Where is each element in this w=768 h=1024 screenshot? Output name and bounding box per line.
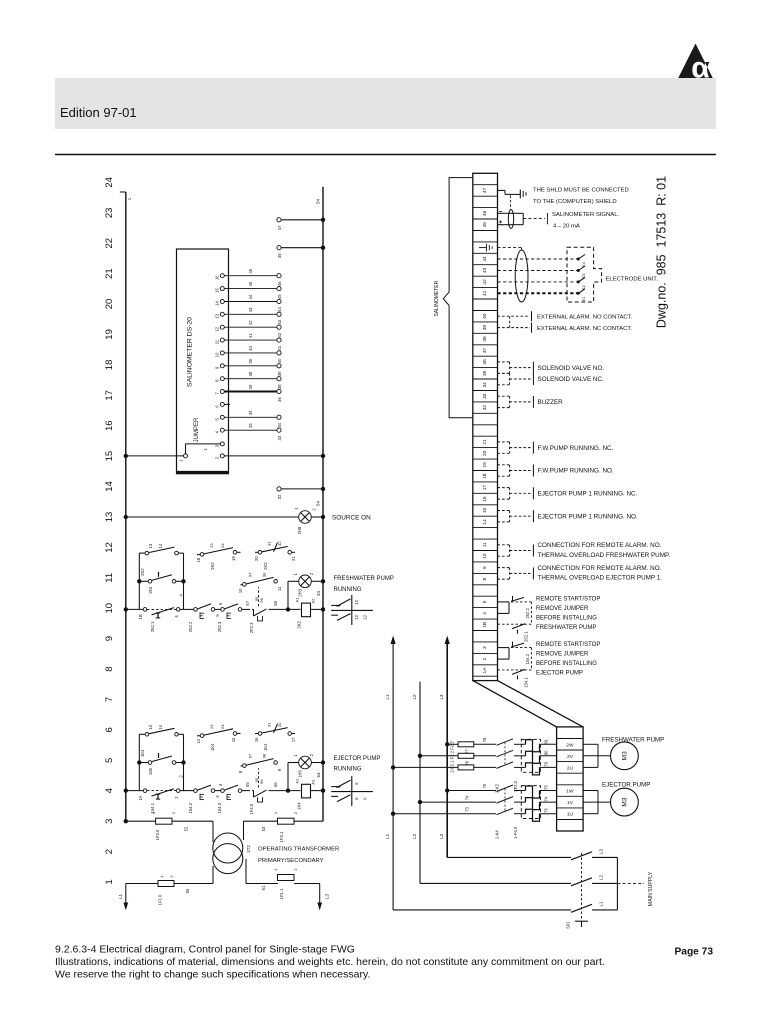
contact 1K4 13/14 seal-in <box>139 724 183 790</box>
logo Alfa Laval <box>678 44 713 85</box>
svg-text:39: 39 <box>277 371 282 376</box>
svg-text:154.2: 154.2 <box>525 653 530 664</box>
svg-text:31: 31 <box>266 541 271 546</box>
svg-text:BEFORE INSTALLING: BEFORE INSTALLING <box>536 661 597 667</box>
svg-text:3: 3 <box>215 795 220 798</box>
svg-text:1B: 1B <box>138 614 143 619</box>
svg-text:JUMPER: JUMPER <box>194 417 200 442</box>
svg-text:15: 15 <box>482 508 488 514</box>
svg-text:F.W.PUMP RUNNING. NO.: F.W.PUMP RUNNING. NO. <box>538 468 614 475</box>
svg-text:16: 16 <box>482 496 488 502</box>
contact 1F4.0 97/98 <box>238 753 282 773</box>
svg-text:THERMAL OVERLOAD FRESHWATER PU: THERMAL OVERLOAD FRESHWATER PUMP. <box>538 552 671 559</box>
svg-text:RUNNING: RUNNING <box>334 587 362 593</box>
svg-text:ELECTRODE UNIT.: ELECTRODE UNIT. <box>606 276 659 282</box>
brace SALINOMETER group <box>434 178 473 418</box>
wire stub terminal 32 row 14 <box>277 487 325 500</box>
svg-text:2K2: 2K2 <box>263 562 268 570</box>
svg-text:73: 73 <box>544 808 549 813</box>
svg-text:45: 45 <box>482 222 488 228</box>
power bus L1 <box>385 636 396 910</box>
wire power bot ('73', 467.0, 809.5) <box>391 807 557 822</box>
svg-text:252.3: 252.3 <box>217 621 222 632</box>
DS-20 pin 5 wire to terminal 34 <box>215 410 283 428</box>
svg-text:1W: 1W <box>566 789 574 795</box>
solenoid valve connections terminals 36/35/34 <box>498 362 605 385</box>
wire stub terminal 35 row 22 <box>277 246 325 259</box>
pushbutton 155 start <box>137 753 186 778</box>
contact 1K4 23/24 <box>196 724 241 751</box>
svg-text:12: 12 <box>354 599 359 604</box>
svg-text:L1: L1 <box>385 833 390 839</box>
svg-text:19: 19 <box>104 329 115 340</box>
svg-text:18: 18 <box>196 557 201 562</box>
svg-text:96: 96 <box>259 597 264 602</box>
svg-text:20: 20 <box>482 450 488 456</box>
wire control rung freshwater pump control <box>124 607 326 611</box>
svg-text:35: 35 <box>248 384 253 389</box>
svg-text:F.W.PUMP RUNNING. NC.: F.W.PUMP RUNNING. NC. <box>538 445 614 452</box>
svg-text:1: 1 <box>127 197 132 200</box>
svg-text:REMOTE START/STOP: REMOTE START/STOP <box>536 642 600 648</box>
wire power bot ('76', 467.0, 763.2) <box>391 760 557 775</box>
svg-text:1F1.0: 1F1.0 <box>158 894 163 905</box>
svg-text:41: 41 <box>277 345 282 350</box>
svg-text:FRESHWATER PUMP: FRESHWATER PUMP <box>536 625 596 631</box>
svg-text:1K4: 1K4 <box>210 743 215 751</box>
svg-text:2V: 2V <box>567 754 574 760</box>
svg-text:4: 4 <box>104 788 115 793</box>
terminal strip X1 <box>473 173 498 680</box>
svg-text:5: 5 <box>104 758 115 763</box>
svg-text:2: 2 <box>293 868 298 871</box>
svg-text:98: 98 <box>261 572 266 577</box>
svg-text:SOURCE ON: SOURCE ON <box>332 514 371 521</box>
svg-text:97: 97 <box>247 753 252 758</box>
svg-text:42: 42 <box>277 332 282 337</box>
svg-text:1: 1 <box>293 572 298 575</box>
svg-text:5: 5 <box>218 602 223 605</box>
terminal arrow L1 bottom <box>118 894 123 900</box>
svg-text:2: 2 <box>174 796 179 799</box>
svg-text:1K4: 1K4 <box>140 749 145 757</box>
svg-text:2H3: 2H3 <box>298 588 303 596</box>
svg-text:A2: A2 <box>311 779 316 785</box>
svg-text:2: 2 <box>169 875 174 878</box>
svg-text:3: 3 <box>482 646 488 649</box>
svg-text:33: 33 <box>277 435 282 440</box>
relay coil 2K2 <box>295 597 316 629</box>
svg-text:17: 17 <box>291 737 296 742</box>
svg-text:1A: 1A <box>138 795 143 800</box>
svg-text:252.2: 252.2 <box>525 607 530 618</box>
svg-text:TO THE (COMPUTER) SHIELD: TO THE (COMPUTER) SHIELD <box>533 199 617 205</box>
contactor 1-K4 power contacts <box>495 789 506 840</box>
svg-text:41: 41 <box>248 333 253 338</box>
svg-text:1V: 1V <box>567 800 574 806</box>
svg-text:A1: A1 <box>295 778 300 784</box>
svg-text:M3: M3 <box>622 797 629 806</box>
svg-text:BUZZER: BUZZER <box>538 399 564 406</box>
svg-text:A1: A1 <box>295 597 300 603</box>
svg-text:THE SHLD MUST BE CONNECTED: THE SHLD MUST BE CONNECTED <box>533 188 629 194</box>
svg-text:32: 32 <box>277 722 282 727</box>
DS-20 pin 13 wire to terminal 43 <box>215 307 283 325</box>
remote alarm fw pump terminals 11/10 <box>498 542 671 559</box>
pushbutton 252.1 <box>138 608 180 633</box>
thermal overload 2F2.0 <box>513 739 540 791</box>
svg-text:10: 10 <box>104 603 115 614</box>
electrode unit cable <box>498 248 579 302</box>
terminal strip X2 motor terminals <box>557 727 584 831</box>
svg-text:44: 44 <box>482 256 488 262</box>
svg-text:54: 54 <box>316 501 321 507</box>
svg-text:2K2: 2K2 <box>297 621 302 629</box>
svg-text:1: 1 <box>294 507 299 510</box>
svg-text:FRESHWATER PUMP: FRESHWATER PUMP <box>602 736 664 743</box>
thermal overload contact 1F4.0 <box>245 768 278 814</box>
svg-text:14: 14 <box>215 301 220 306</box>
contact 2K2 13/14 seal-in <box>139 543 183 609</box>
svg-text:5: 5 <box>215 417 220 420</box>
fw pump running nc terminals 21/20 <box>498 442 614 454</box>
svg-text:4: 4 <box>174 615 179 618</box>
DS-20 pin 7 wire to terminal 36 <box>215 384 283 402</box>
svg-text:1: 1 <box>203 448 208 451</box>
svg-text:38: 38 <box>277 384 282 389</box>
svg-text:L2: L2 <box>412 833 417 839</box>
svg-text:252.1: 252.1 <box>524 631 529 642</box>
DS-20 pin 9 wire to terminal 39 <box>215 358 283 376</box>
svg-text:75: 75 <box>544 785 549 790</box>
svg-text:11: 11 <box>482 542 488 547</box>
svg-text:13: 13 <box>148 724 153 729</box>
svg-text:155: 155 <box>148 767 153 775</box>
svg-text:SALINOMETER: SALINOMETER <box>434 280 440 316</box>
footer text <box>55 944 605 981</box>
header rule <box>55 154 716 156</box>
svg-text:8: 8 <box>482 577 488 580</box>
svg-text:19: 19 <box>231 556 236 561</box>
svg-text:13: 13 <box>148 543 153 548</box>
svg-text:74: 74 <box>544 796 549 801</box>
contactor 2-K2 power contacts <box>495 742 506 793</box>
pushbutton 253 start <box>137 572 186 597</box>
switch 154.3 <box>215 783 242 813</box>
svg-text:33: 33 <box>248 423 253 428</box>
svg-text:15: 15 <box>104 451 115 462</box>
svg-text:17: 17 <box>482 485 488 491</box>
lamp 2H3 <box>288 572 325 609</box>
terminal arrow L3 bottom <box>317 884 329 911</box>
contact 2K2 23/24 <box>196 543 241 570</box>
svg-text:55: 55 <box>245 782 250 787</box>
svg-text:9: 9 <box>482 566 488 569</box>
svg-text:1F3.0: 1F3.0 <box>155 829 160 840</box>
svg-text:1A: 1A <box>482 667 488 674</box>
svg-text:1B: 1B <box>482 622 488 628</box>
svg-text:34: 34 <box>277 422 282 427</box>
wire stub terminal 47 row 23 <box>277 218 325 231</box>
svg-text:L3: L3 <box>599 849 604 855</box>
svg-text:A2: A2 <box>311 598 316 604</box>
DS-20 pin 8 wire to terminal 38 <box>215 371 283 389</box>
svg-text:2: 2 <box>171 811 176 814</box>
wire left control bus <box>120 192 132 821</box>
svg-text:73: 73 <box>465 807 470 812</box>
switch 252.2 <box>188 604 215 632</box>
lamp 1H5 <box>288 753 325 790</box>
svg-text:78: 78 <box>482 737 487 742</box>
contact 2K2 31/32 <box>254 541 296 570</box>
main supply label <box>617 871 653 906</box>
svg-text:1: 1 <box>293 754 298 757</box>
svg-text:74: 74 <box>465 795 470 800</box>
DS-20 pin 14 wire to terminal 44 <box>215 294 283 312</box>
ruler numbers 1-24 <box>104 177 115 885</box>
svg-text:19: 19 <box>482 462 488 468</box>
svg-text:2: 2 <box>293 811 298 814</box>
svg-text:9: 9 <box>104 636 115 641</box>
svg-text:5: 5 <box>215 614 220 617</box>
svg-text:46: 46 <box>482 210 488 216</box>
svg-text:45: 45 <box>248 281 253 286</box>
svg-text:24: 24 <box>220 724 225 729</box>
ejector pump running nc terminals 17/16 <box>498 487 638 499</box>
svg-text:8: 8 <box>238 770 243 773</box>
svg-text:15: 15 <box>215 288 220 293</box>
svg-text:2: 2 <box>309 572 314 575</box>
svg-text:6: 6 <box>354 797 359 800</box>
DS-20 pin 1 and jumper <box>179 444 221 462</box>
svg-text:40: 40 <box>277 358 282 363</box>
svg-text:8: 8 <box>215 379 220 382</box>
svg-text:4: 4 <box>482 612 488 615</box>
svg-text:16: 16 <box>254 737 259 742</box>
svg-text:32: 32 <box>482 405 488 411</box>
svg-text:1U: 1U <box>567 812 574 818</box>
svg-text:2: 2 <box>482 657 488 660</box>
svg-text:9: 9 <box>277 768 282 771</box>
svg-text:2: 2 <box>309 753 314 756</box>
svg-text:39: 39 <box>248 358 253 363</box>
fuses 2-F2.1 F2.2 F2.3 <box>450 741 474 773</box>
svg-text:15: 15 <box>231 737 236 742</box>
svg-text:47: 47 <box>482 187 488 193</box>
svg-text:98: 98 <box>261 753 266 758</box>
svg-text:12: 12 <box>354 614 359 619</box>
svg-text:40: 40 <box>482 313 488 319</box>
svg-text:2W: 2W <box>566 742 574 748</box>
svg-text:7: 7 <box>215 392 220 395</box>
svg-text:EXTERNAL ALARM. NO CONTACT.: EXTERNAL ALARM. NO CONTACT. <box>537 314 633 320</box>
svg-text:3: 3 <box>104 819 115 824</box>
svg-text:6: 6 <box>215 405 220 408</box>
DS-20 pin 12 wire to terminal 42 <box>215 320 283 338</box>
svg-text:46: 46 <box>248 268 253 273</box>
svg-text:45: 45 <box>277 294 282 299</box>
svg-text:1F3.1: 1F3.1 <box>279 831 284 842</box>
svg-text:14: 14 <box>482 519 488 525</box>
svg-text:Dwg.no. 985 17513 R: 01: Dwg.no. 985 17513 R: 01 <box>654 176 668 328</box>
svg-text:Edition 97-01: Edition 97-01 <box>60 105 137 120</box>
svg-text:41: 41 <box>482 290 488 296</box>
svg-text:2: 2 <box>179 775 184 778</box>
svg-text:51: 51 <box>261 885 266 890</box>
DS-20 pin 11 wire to terminal 41 <box>215 333 283 351</box>
svg-text:1T2: 1T2 <box>246 845 251 853</box>
svg-text:54: 54 <box>316 772 321 778</box>
fuse 1F1.0 <box>158 875 191 906</box>
svg-text:THERMAL OVERLOAD EJECTOR PUMP: THERMAL OVERLOAD EJECTOR PUMP 1. <box>538 575 663 582</box>
wire control rung ejector pump control <box>124 788 326 792</box>
remote alarm ejector pump terminals 9/8 <box>498 565 663 582</box>
DS-20 pin 16 wire to terminal 46 <box>215 268 283 286</box>
svg-text:31: 31 <box>266 722 271 727</box>
wire row 1 primary <box>126 859 320 884</box>
svg-text:47: 47 <box>277 225 282 230</box>
svg-text:36: 36 <box>277 397 282 402</box>
svg-text:18: 18 <box>104 360 115 371</box>
svg-text:12: 12 <box>363 614 368 619</box>
svg-text:81: 81 <box>544 738 549 743</box>
terminal strip transition to motor strip <box>473 681 583 727</box>
svg-text:53: 53 <box>261 826 266 831</box>
svg-text:20: 20 <box>254 556 259 561</box>
svg-text:6: 6 <box>363 797 368 800</box>
svg-text:24: 24 <box>220 543 225 548</box>
svg-text:1F1.1: 1F1.1 <box>279 888 284 899</box>
wire row 15 <box>124 454 326 458</box>
svg-text:56: 56 <box>273 782 278 787</box>
svg-text:34: 34 <box>248 410 253 415</box>
external alarm connections terminals 40/39 <box>498 311 633 332</box>
svg-text:2H8: 2H8 <box>297 526 302 534</box>
svg-text:52: 52 <box>184 826 189 831</box>
svg-text:EJECTOR PUMP: EJECTOR PUMP <box>536 671 583 677</box>
DS-20 pin 10 wire to terminal 40 <box>215 345 283 363</box>
svg-text:1-K4: 1-K4 <box>495 830 500 840</box>
svg-text:80: 80 <box>544 750 549 755</box>
svg-text:EXTERNAL ALARM. NC CONTACT.: EXTERNAL ALARM. NC CONTACT. <box>537 326 632 332</box>
svg-text:1: 1 <box>179 459 184 462</box>
svg-text:1F4.0: 1F4.0 <box>249 803 254 814</box>
svg-text:7: 7 <box>104 697 115 702</box>
svg-text:2K2: 2K2 <box>140 568 145 576</box>
svg-text:REMOVE JUMPER: REMOVE JUMPER <box>536 652 589 658</box>
svg-text:96: 96 <box>259 779 264 784</box>
svg-text:44: 44 <box>248 294 253 299</box>
wire row 3 secondary <box>124 819 323 842</box>
wire power top ('78', 484.7, 740.0) <box>445 737 557 752</box>
svg-text:REMOTE START/STOP: REMOTE START/STOP <box>536 597 600 603</box>
contactor 1K4 power contacts <box>331 776 373 806</box>
svg-text:21: 21 <box>482 439 488 445</box>
svg-text:18: 18 <box>482 473 488 479</box>
svg-text:38: 38 <box>248 371 253 376</box>
lamp 2H8 SOURCE ON <box>124 507 371 535</box>
svg-text:EJECTOR PUMP 1 RUNNING. NO.: EJECTOR PUMP 1 RUNNING. NO. <box>538 513 638 520</box>
svg-text:10: 10 <box>238 588 243 593</box>
svg-text:79: 79 <box>544 761 549 766</box>
power bus L3 <box>439 636 450 858</box>
pushbutton 154.1 <box>138 789 180 814</box>
thermal overload contact 2F2.3 <box>245 587 278 633</box>
svg-text:33: 33 <box>482 393 488 399</box>
svg-text:L2: L2 <box>599 875 604 881</box>
DS-20 pin 2 <box>215 454 225 459</box>
svg-text:1-F4.0: 1-F4.0 <box>513 826 518 839</box>
svg-text:Illustrations, indications of: Illustrations, indications of material, … <box>55 956 605 968</box>
svg-text:154.1: 154.1 <box>524 676 529 687</box>
fw pump running no terminals 19/18 <box>498 465 614 477</box>
svg-text:50: 50 <box>185 888 190 893</box>
label freshwater pump running <box>334 576 394 593</box>
svg-text:12: 12 <box>215 326 220 331</box>
svg-text:1H5: 1H5 <box>298 769 303 777</box>
svg-text:36: 36 <box>482 359 488 365</box>
svg-text:PRIMARY/SECONDARY: PRIMARY/SECONDARY <box>258 858 324 864</box>
svg-text:OPERATING TRANSFORMER: OPERATING TRANSFORMER <box>258 847 339 853</box>
svg-text:SALINOMETER DS-20: SALINOMETER DS-20 <box>186 317 193 387</box>
remote start/stop ejector pump terminals 3/2/1A <box>498 642 601 688</box>
svg-text:3: 3 <box>215 444 220 447</box>
relay coil 1K4 <box>295 778 316 810</box>
fuse 1F3.0 <box>151 811 188 840</box>
svg-text:EJECTOR PUMP 1 RUNNING. NC.: EJECTOR PUMP 1 RUNNING. NC. <box>538 491 638 498</box>
svg-text:154.2: 154.2 <box>188 802 193 813</box>
svg-text:CONNECTION FOR REMOTE ALARM. N: CONNECTION FOR REMOTE ALARM. NO. <box>538 565 662 572</box>
switch 154.2 <box>188 785 215 813</box>
svg-text:43: 43 <box>248 307 253 312</box>
svg-text:16: 16 <box>104 420 115 431</box>
svg-text:10: 10 <box>482 553 488 559</box>
svg-text:35: 35 <box>277 253 282 258</box>
svg-text:23: 23 <box>209 724 214 729</box>
DS-20 pin 15 wire to terminal 45 <box>215 281 283 299</box>
svg-text:2: 2 <box>312 508 317 511</box>
salinometer DS-20 box <box>177 249 229 474</box>
contact 1K4 31/32 <box>254 722 296 751</box>
salinometer signal cable screen <box>498 195 620 229</box>
svg-text:46: 46 <box>277 281 282 286</box>
svg-text:10: 10 <box>215 352 220 357</box>
svg-text:L3: L3 <box>439 833 444 839</box>
svg-text:8: 8 <box>104 666 115 671</box>
svg-text:12: 12 <box>104 542 115 553</box>
svg-text:L2: L2 <box>412 694 417 700</box>
svg-text:2U: 2U <box>567 765 574 771</box>
remote start/stop freshwater pump terminals 5/4/1B <box>498 596 601 642</box>
svg-text:4: 4 <box>179 593 184 596</box>
svg-text:58: 58 <box>273 600 278 605</box>
svg-text:24: 24 <box>104 177 115 188</box>
svg-text:57: 57 <box>245 600 250 605</box>
svg-text:RUNNING: RUNNING <box>334 767 362 773</box>
svg-text:L3: L3 <box>325 894 330 900</box>
svg-text:252.2: 252.2 <box>188 621 193 632</box>
svg-text:14: 14 <box>196 738 201 743</box>
svg-text:34: 34 <box>316 591 321 597</box>
svg-text:34: 34 <box>482 382 488 388</box>
motor M1 freshwater pump <box>583 736 664 769</box>
header bar <box>55 78 716 129</box>
svg-text:2K2: 2K2 <box>210 562 215 570</box>
svg-text:Page 73: Page 73 <box>675 947 714 958</box>
svg-text:21: 21 <box>104 268 115 279</box>
svg-text:E4: E4 <box>582 262 586 267</box>
svg-text:39: 39 <box>482 325 488 331</box>
